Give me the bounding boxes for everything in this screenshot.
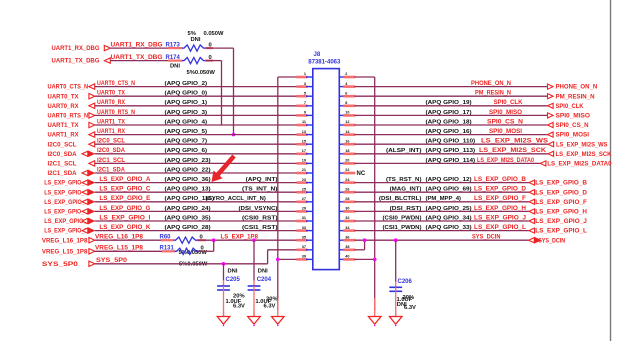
pin 4 [339, 82, 355, 87]
pin 2 [339, 72, 355, 77]
svg-text:UART0_RX: UART0_RX [97, 100, 125, 106]
wire LS_EXP_MI2S_DATA0 (pin 20) [355, 158, 541, 164]
connector J8 87381-4063 [308, 52, 341, 270]
svg-text:UART0_RX: UART0_RX [48, 103, 80, 110]
node LS_EXP_MI2S_WS port [548, 141, 608, 148]
svg-text:(APQ GPIO_4): (APQ GPIO_4) [165, 119, 208, 125]
pin 10 [339, 111, 355, 116]
svg-text:12: 12 [345, 120, 349, 124]
capacitor C206 [389, 279, 412, 317]
pin 1 [297, 72, 313, 77]
svg-text:DNI: DNI [258, 269, 268, 275]
svg-text:(APQ GPIO_19): (APQ GPIO_19) [426, 100, 472, 106]
pin 11 [297, 120, 313, 125]
svg-text:21: 21 [302, 168, 306, 172]
svg-text:19: 19 [302, 159, 306, 163]
pin 35 [297, 235, 313, 240]
wire I2C0_SCL [95, 139, 298, 145]
wire UART1_TX_DBG to R174 [110, 55, 182, 61]
pin 15 [297, 139, 313, 144]
svg-text:I2C0_SDA: I2C0_SDA [48, 151, 78, 158]
svg-text:R60: R60 [160, 235, 172, 241]
node UART0_CTS_N port [48, 84, 95, 91]
svg-text:VREG_L16_1P8: VREG_L16_1P8 [42, 237, 88, 244]
pin 3 [297, 82, 313, 87]
svg-text:PHONE_ON_N: PHONE_ON_N [556, 84, 598, 91]
node LS_EXP_GPIO_A port [44, 180, 94, 187]
wire GND rail pins 2,40 [355, 77, 375, 311]
wire LS_EXP_MI2S_WS (pin 16) [355, 139, 549, 145]
svg-text:36: 36 [345, 235, 349, 239]
svg-text:I2C1_SDA: I2C1_SDA [48, 170, 78, 177]
node UART1_RX port [48, 132, 95, 139]
svg-text:(APQ GPIO_6): (APQ GPIO_6) [165, 148, 208, 154]
svg-text:LS_EXP_GPIO_E: LS_EXP_GPIO_E [99, 196, 150, 202]
svg-text:27: 27 [302, 197, 306, 201]
pin 40 [339, 255, 355, 260]
node I2C0_SCL port [48, 141, 95, 148]
svg-text:(CSI1_PWDN): (CSI1_PWDN) [383, 225, 422, 231]
svg-text:LS_EXP_GPIO_D: LS_EXP_GPIO_D [474, 187, 527, 193]
svg-text:C205: C205 [226, 277, 241, 283]
pin 13 [297, 130, 313, 135]
resistor R60 [160, 235, 203, 244]
wire LS_EXP_GPIO_F (pin 28) [355, 196, 530, 202]
node SPI0_CS_N port [548, 122, 589, 129]
wire VREG_L15_1P8 to R131 [95, 246, 175, 252]
wire R131 output riser to LS_EXP_1P8 [199, 240, 214, 251]
svg-text:(APQ GPIO_36): (APQ GPIO_36) [165, 177, 211, 183]
svg-text:I2C1_SCL: I2C1_SCL [97, 158, 125, 164]
svg-text:(DSI_VSYNC): (DSI_VSYNC) [239, 206, 278, 212]
svg-text:VREG_L16_1P8: VREG_L16_1P8 [95, 235, 144, 241]
capacitor C205 [217, 269, 240, 317]
svg-text:SPI0_CS_N: SPI0_CS_N [487, 119, 523, 125]
wire SYS_5P0 to pin 37 [95, 250, 298, 264]
svg-text:28: 28 [345, 197, 349, 201]
svg-text:LS_EXP_GPIO_F: LS_EXP_GPIO_F [474, 196, 526, 202]
node LS_EXP_GPIO_C port [44, 189, 94, 196]
junction C206 tap on SYS_DCIN [394, 238, 398, 242]
svg-text:25: 25 [302, 187, 306, 191]
svg-text:(APQ GPIO_5): (APQ GPIO_5) [165, 129, 208, 135]
R60 value label 5%0.050W [179, 250, 208, 256]
wire SPI0_CS_N (pin 12) [355, 119, 548, 125]
ground below C206 [389, 311, 402, 327]
svg-text:DNI: DNI [228, 269, 238, 275]
wire UART1_RX_DBG to R173 [110, 43, 182, 49]
node UART1_TX port [48, 122, 95, 129]
junction C205 tap on SYS_5P0 [222, 262, 226, 266]
svg-text:VREG_L15_1P8: VREG_L15_1P8 [95, 246, 144, 252]
svg-text:29: 29 [302, 207, 306, 211]
svg-text:6.3V: 6.3V [233, 303, 245, 309]
svg-text:(APQ GPIO_69): (APQ GPIO_69) [426, 187, 472, 193]
svg-text:(APQ GPIO_35): (APQ GPIO_35) [165, 215, 211, 221]
svg-text:DNI: DNI [191, 37, 201, 43]
svg-text:NC: NC [357, 171, 366, 177]
svg-text:UART0_CTS_N: UART0_CTS_N [48, 84, 89, 91]
resistor R131 [160, 246, 204, 255]
svg-text:(APQ_INT): (APQ_INT) [246, 177, 278, 183]
svg-text:37: 37 [302, 245, 306, 249]
capacitor C204 [248, 269, 272, 317]
pin 6 [339, 91, 355, 96]
svg-text:UART1_TX: UART1_TX [48, 122, 80, 129]
node LS_EXP_GPIO_G port [44, 209, 94, 216]
svg-text:UART1_TX_DBG: UART1_TX_DBG [52, 58, 100, 65]
svg-text:(CSI0_RST): (CSI0_RST) [242, 215, 278, 221]
wire SPI0_MOSI (pin 14) [355, 129, 548, 135]
ground below pins 1,39 [272, 311, 285, 327]
svg-text:(APQ GPIO_3): (APQ GPIO_3) [165, 110, 208, 116]
svg-text:PM_RESIN_N: PM_RESIN_N [556, 93, 595, 100]
svg-text:(APQ GPIO_12): (APQ GPIO_12) [426, 177, 472, 183]
svg-text:SPI0_CS_N: SPI0_CS_N [556, 122, 589, 129]
svg-text:UART1_TX_DBG: UART1_TX_DBG [111, 55, 163, 61]
wire LS_EXP_GPIO_K [95, 225, 298, 231]
svg-text:UART0_RTS_N: UART0_RTS_N [48, 113, 89, 120]
node SPI0_MOSI port [548, 132, 590, 139]
node I2C1_SCL port [48, 161, 95, 168]
svg-text:(APQ GPIO_2): (APQ GPIO_2) [165, 81, 208, 87]
svg-text:J8: J8 [314, 52, 321, 58]
svg-text:LS_EXP_GPIO_L: LS_EXP_GPIO_L [474, 225, 526, 231]
node UART0_RTS_N port [48, 113, 95, 120]
svg-text:(DSI_BLCTRL): (DSI_BLCTRL) [379, 196, 422, 202]
svg-text:SPI0_CLK: SPI0_CLK [494, 100, 524, 106]
svg-text:33: 33 [302, 226, 306, 230]
svg-text:LS_EXP_GPIO_D: LS_EXP_GPIO_D [535, 189, 587, 196]
svg-text:UART1_RX_DBG: UART1_RX_DBG [111, 43, 163, 49]
svg-text:SYS_DCIN: SYS_DCIN [472, 235, 501, 241]
wire LS_EXP_GPIO_A [95, 177, 298, 183]
resistor R174 [166, 55, 212, 64]
svg-text:LS_EXP_GPIO_J: LS_EXP_GPIO_J [535, 218, 587, 225]
node LS_EXP_GPIO_E port [44, 199, 94, 206]
node LS_EXP_GPIO_F port [529, 199, 587, 206]
R173 value labels 5% 0.050W DNI [188, 31, 225, 43]
svg-text:5: 5 [304, 91, 306, 95]
wire UART0_CTS_N [95, 81, 298, 87]
junction R60/R131 outputs [212, 238, 216, 242]
svg-text:(APQ GPIO_17): (APQ GPIO_17) [426, 110, 472, 116]
svg-text:R173: R173 [166, 43, 181, 49]
svg-text:UART0_TX: UART0_TX [97, 91, 125, 97]
svg-text:C204: C204 [257, 277, 272, 283]
wire UART0_TX [95, 91, 298, 97]
node PM_RESIN_N port [548, 93, 595, 100]
svg-text:32: 32 [345, 216, 349, 220]
wire I2C1_SCL [95, 158, 298, 164]
wire SPI0_MISO (pin 10) [355, 110, 548, 116]
svg-text:(APQ GPIO_34): (APQ GPIO_34) [426, 215, 472, 221]
pin 36 [339, 235, 355, 240]
svg-text:UART0_TX: UART0_TX [48, 93, 80, 100]
pin 16 [339, 139, 355, 144]
svg-text:I2C0_SCL: I2C0_SCL [48, 141, 77, 148]
svg-text:(TS_INT_N): (TS_INT_N) [242, 187, 278, 193]
wire VREG_L16_1P8 to R60 [95, 235, 174, 241]
svg-text:I2C0_SDA: I2C0_SDA [97, 148, 126, 154]
svg-text:LS_EXP_GPIO_F: LS_EXP_GPIO_F [535, 199, 587, 206]
svg-text:9: 9 [304, 111, 306, 115]
wire LS_EXP_1P8 net to pin 35 [198, 235, 298, 241]
svg-text:R131: R131 [160, 246, 175, 252]
svg-text:UART1_RX_DBG: UART1_RX_DBG [52, 45, 100, 52]
pin 32 [339, 216, 355, 221]
svg-text:40: 40 [345, 255, 349, 259]
pin 25 [297, 187, 313, 192]
node NC (pin 22) [357, 171, 366, 177]
C205 value labels 1.0UF 20% 6.3V [226, 294, 246, 310]
wire LS_EXP_GPIO_J (pin 32) [355, 215, 530, 221]
wire I2C1_SDA [95, 167, 298, 173]
ground below C204 [248, 311, 261, 327]
node UART0_TX port [48, 93, 95, 100]
svg-text:18: 18 [345, 149, 349, 153]
node SPI0_MISO port [548, 113, 591, 120]
svg-text:UART0_CTS_N: UART0_CTS_N [97, 81, 135, 87]
wire LS_EXP_GPIO_H (pin 30) [355, 206, 530, 212]
svg-text:39: 39 [302, 255, 306, 259]
ground below pins 2,40 [368, 311, 381, 327]
junction pin 39 / GND rail [276, 258, 280, 262]
svg-text:LS_EXP_GPIO_G: LS_EXP_GPIO_G [99, 206, 150, 212]
svg-text:LS_EXP_MI2S_SCK: LS_EXP_MI2S_SCK [556, 151, 612, 158]
svg-text:LS_EXP_GPIO_G: LS_EXP_GPIO_G [44, 209, 88, 216]
node LS_EXP_GPIO_B port [529, 180, 587, 187]
pin 19 [297, 159, 313, 164]
svg-text:87381-4063: 87381-4063 [308, 59, 341, 65]
svg-text:LS_EXP_GPIO_B: LS_EXP_GPIO_B [535, 180, 587, 187]
wire C204 lead from LS_EXP_1P8 [253, 240, 255, 281]
svg-text:(APQ GPIO_25): (APQ GPIO_25) [426, 206, 472, 212]
pin 31 [297, 216, 313, 221]
wire LS_EXP_GPIO_B (pin 24) [355, 177, 530, 183]
wire UART0_RX [95, 100, 298, 106]
junction C204 tap on LS_EXP_1P8 [252, 238, 256, 242]
R131 value label 5%0.050W [179, 261, 208, 267]
svg-text:LS_EXP_GPIO_B: LS_EXP_GPIO_B [474, 177, 527, 183]
wire I2C0_SDA [95, 148, 298, 154]
svg-text:LS_EXP_GPIO_E: LS_EXP_GPIO_E [44, 199, 88, 206]
node UART1_RX_DBG port [52, 45, 111, 52]
wire LS_EXP_GPIO_C [95, 187, 298, 193]
svg-text:22: 22 [345, 168, 349, 172]
node I2C1_SDA port [48, 170, 95, 177]
svg-text:(APQ GPIO_114): (APQ GPIO_114) [426, 158, 476, 164]
pin 7 [297, 101, 313, 106]
pin 38 [339, 245, 355, 250]
svg-text:(APQ GPIO_22): (APQ GPIO_22) [165, 167, 211, 173]
pin 34 [339, 226, 355, 231]
node LS_EXP_GPIO_K port [44, 228, 94, 235]
node LS_EXP_GPIO_J port [529, 218, 587, 225]
wire R174 output drop to UART1_TX net [205, 61, 222, 125]
node LS_EXP_GPIO_D port [529, 189, 587, 196]
svg-text:SYS_5P0: SYS_5P0 [42, 261, 79, 268]
svg-text:30: 30 [345, 207, 349, 211]
wire LS_EXP_GPIO_L (pin 34) [355, 225, 530, 231]
pin 39 [297, 255, 313, 260]
svg-text:LS_EXP_MI2S_DATA0: LS_EXP_MI2S_DATA0 [477, 158, 535, 164]
svg-text:LS_EXP_GPIO_C: LS_EXP_GPIO_C [99, 187, 151, 193]
svg-text:SPI0_MOSI: SPI0_MOSI [489, 129, 522, 135]
node LS_EXP_MI2S_SCK port [548, 151, 612, 158]
node I2C0_SDA port [48, 151, 95, 158]
svg-text:LS_EXP_MI2S_SCK: LS_EXP_MI2S_SCK [479, 148, 547, 154]
svg-text:16: 16 [345, 139, 349, 143]
wire LS_EXP_GPIO_I [95, 215, 298, 221]
svg-text:SYS_DCIN: SYS_DCIN [538, 237, 565, 244]
pin 5 [297, 91, 313, 96]
R174 value labels DNI 5%0.050W [170, 64, 215, 76]
svg-text:3: 3 [304, 82, 306, 86]
pin 37 [297, 245, 313, 250]
svg-text:LS_EXP_GPIO_I: LS_EXP_GPIO_I [99, 215, 150, 221]
node PHONE_ON_N port [548, 84, 598, 91]
pin 8 [339, 101, 355, 106]
svg-text:SPI0_MISO: SPI0_MISO [556, 113, 591, 120]
junction R173 / UART1_RX [232, 133, 236, 137]
svg-text:SPI0_CLK: SPI0_CLK [556, 103, 584, 110]
node VREG_L16_1P8 port [42, 237, 95, 244]
annotation arrow pointing at APQ GPIO_36 [212, 155, 236, 183]
node UART0_RX port [48, 103, 95, 110]
wire LS_EXP_MI2S_SCK (pin 18) [355, 148, 549, 154]
pin 33 [297, 226, 313, 231]
svg-text:UART1_RX: UART1_RX [97, 129, 125, 135]
wire UART1_TX [95, 119, 298, 125]
svg-text:31: 31 [302, 216, 306, 220]
node VREG_L15_1P8 port [42, 248, 95, 255]
svg-text:PM_RESIN_N: PM_RESIN_N [475, 91, 511, 97]
svg-text:(APQ GPIO_18): (APQ GPIO_18) [426, 119, 472, 125]
pin 29 [297, 207, 313, 212]
svg-text:LS_EXP_GPIO_J: LS_EXP_GPIO_J [474, 215, 526, 221]
svg-text:20: 20 [345, 159, 349, 163]
svg-text:17: 17 [302, 149, 306, 153]
wire C206 lead from SYS_DCIN [395, 240, 397, 282]
wire UART0_RTS_N [95, 110, 298, 116]
svg-text:(APQ GPIO_24): (APQ GPIO_24) [165, 206, 211, 212]
wire PM_RESIN_N (pin 6) [355, 91, 548, 97]
svg-text:UART1_TX: UART1_TX [97, 119, 125, 125]
wire R173 output drop to UART1_RX net [205, 48, 234, 135]
svg-text:LS_EXP_MI2S_WS: LS_EXP_MI2S_WS [556, 141, 608, 148]
svg-text:UART0_RTS_N: UART0_RTS_N [97, 110, 135, 116]
svg-text:PHONE_ON_N: PHONE_ON_N [471, 81, 511, 87]
svg-text:(APQ GPIO_0): (APQ GPIO_0) [165, 91, 208, 97]
svg-text:(DSI_RST): (DSI_RST) [390, 206, 422, 212]
svg-text:(MAG_INT): (MAG_INT) [390, 187, 422, 193]
pin 30 [339, 207, 355, 212]
svg-text:5%0.050W: 5%0.050W [187, 70, 216, 76]
svg-text:(APQ GPIO_7): (APQ GPIO_7) [165, 139, 208, 145]
junction pin 38 / SYS_DCIN [363, 238, 367, 242]
svg-text:UART1_RX: UART1_RX [48, 132, 80, 139]
pin 22 [339, 168, 355, 173]
svg-text:LS_EXP_GPIO_H: LS_EXP_GPIO_H [535, 209, 587, 216]
node LS_EXP_GPIO_L port [529, 228, 587, 235]
svg-text:(GYRO_ACCL_INT_N): (GYRO_ACCL_INT_N) [206, 196, 266, 202]
C206 value labels 1.0UF 20% DNI 6.3V [397, 295, 417, 311]
svg-text:(APQ GPIO_1): (APQ GPIO_1) [165, 100, 208, 106]
svg-text:6: 6 [345, 91, 347, 95]
svg-text:(APQ GPIO_13): (APQ GPIO_13) [165, 187, 211, 193]
svg-text:35: 35 [302, 235, 306, 239]
wire LS_EXP_GPIO_D (pin 26) [355, 187, 530, 193]
svg-text:11: 11 [302, 120, 306, 124]
node LS_EXP_GPIO_I port [44, 218, 94, 225]
wire SPI0_CLK (pin 8) [355, 100, 548, 106]
svg-text:26: 26 [345, 187, 349, 191]
svg-text:6.3V: 6.3V [264, 303, 276, 309]
svg-text:0.050W: 0.050W [204, 31, 225, 37]
svg-text:I2C1_SDA: I2C1_SDA [97, 167, 126, 173]
resistor R173 [166, 43, 212, 52]
svg-text:LS_EXP_GPIO_K: LS_EXP_GPIO_K [99, 225, 151, 231]
pin 12 [339, 120, 355, 125]
pin 14 [339, 130, 355, 135]
svg-text:(ALSP_INT): (ALSP_INT) [386, 148, 422, 154]
svg-text:I2C0_SCL: I2C0_SCL [97, 139, 125, 145]
svg-text:(APQ GPIO_16): (APQ GPIO_16) [426, 129, 472, 135]
wire PHONE_ON_N (pin 4) [355, 81, 548, 87]
svg-text:6.3V: 6.3V [404, 305, 416, 311]
node LS_EXP_MI2S_DATA0 port [540, 161, 612, 168]
svg-text:(APQ GPIO_28): (APQ GPIO_28) [165, 225, 211, 231]
svg-text:8: 8 [345, 101, 347, 105]
svg-text:10: 10 [345, 111, 349, 115]
svg-text:LS_EXP_GPIO_A: LS_EXP_GPIO_A [99, 177, 151, 183]
R174 drop joins UART1_TX (no dot) [0, 0, 1, 1]
C204 value labels 1.0UF 20% 6.3V [255, 296, 277, 309]
svg-text:SPI0_MOSI: SPI0_MOSI [556, 132, 590, 139]
node LS_EXP_GPIO_H port [529, 209, 587, 216]
svg-text:I2C1_SCL: I2C1_SCL [48, 161, 77, 168]
svg-text:C206: C206 [398, 279, 413, 285]
svg-text:2: 2 [345, 72, 347, 76]
svg-text:(CSI0_PWDN): (CSI0_PWDN) [383, 215, 422, 221]
wire UART1_RX [95, 129, 298, 135]
svg-text:LS_EXP_MI2S_DATA0: LS_EXP_MI2S_DATA0 [547, 161, 612, 168]
wire SYS_DCIN (pins 36,38) [355, 235, 529, 250]
pin 27 [297, 197, 313, 202]
node SPI0_CLK port [548, 103, 584, 110]
junction pin 40 / GND rail [373, 258, 377, 262]
svg-text:(APQ GPIO_113): (APQ GPIO_113) [426, 148, 476, 154]
svg-text:23: 23 [302, 178, 306, 182]
node SYS_DCIN port [529, 237, 566, 244]
svg-text:7: 7 [304, 101, 306, 105]
svg-text:(APQ GPIO_110): (APQ GPIO_110) [426, 139, 476, 145]
svg-text:(CSI1_RST): (CSI1_RST) [242, 225, 278, 231]
wire LS_EXP_GPIO_E [95, 196, 298, 202]
svg-text:(APQ GPIO_23): (APQ GPIO_23) [165, 158, 211, 164]
svg-text:LS_EXP_GPIO_H: LS_EXP_GPIO_H [474, 206, 526, 212]
svg-text:SPI0_MISO: SPI0_MISO [489, 110, 522, 116]
svg-text:LS_EXP_GPIO_L: LS_EXP_GPIO_L [535, 228, 587, 235]
svg-text:SYS_5P0: SYS_5P0 [96, 258, 128, 264]
pin 20 [339, 159, 355, 164]
pin 23 [297, 178, 313, 183]
svg-text:(TS_RST_N): (TS_RST_N) [386, 177, 422, 183]
svg-text:15: 15 [302, 139, 306, 143]
pin 18 [339, 149, 355, 154]
svg-text:13: 13 [302, 130, 306, 134]
